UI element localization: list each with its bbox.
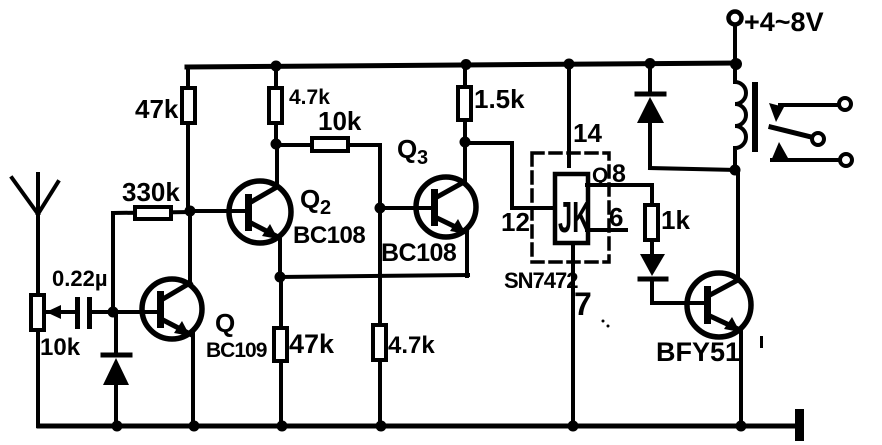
wire Q emitter to ground	[191, 334, 195, 426]
svg-text:47k: 47k	[289, 329, 335, 359]
node pin7/ground	[568, 421, 579, 432]
relay contact NO (top)	[769, 98, 851, 122]
capacitor C1 0.22u	[75, 297, 92, 329]
wire BFY51 emitter to ground	[739, 330, 743, 426]
diode D3 (flyback across relay)	[637, 64, 735, 171]
svg-text:BC108: BC108	[381, 239, 457, 267]
node top rail / 4.7k	[271, 61, 282, 72]
wire Q3 emitter down to bus	[465, 232, 469, 276]
transistor BFY51	[687, 273, 751, 337]
svg-text:+4~8V: +4~8V	[744, 7, 824, 37]
resistor 1.5k	[458, 65, 471, 143]
ground terminal bar	[795, 409, 804, 441]
svg-text:330k: 330k	[122, 177, 180, 207]
svg-text:4.7k: 4.7k	[388, 332, 435, 359]
antenna	[12, 174, 58, 296]
stray mark i	[760, 336, 763, 348]
wire Q collector up	[188, 211, 192, 283]
resistor R 10k (left input)	[31, 295, 76, 330]
wire junction up to 330k	[111, 213, 115, 312]
svg-text:7: 7	[574, 286, 592, 322]
node coil bottom	[730, 165, 741, 176]
svg-text:JK: JK	[558, 192, 591, 242]
node Q3 collector / pin12	[460, 137, 471, 148]
svg-text:10k: 10k	[318, 106, 362, 136]
svg-text:1.5k: 1.5k	[474, 84, 525, 114]
supply terminal	[729, 12, 742, 64]
transistor Q BC109	[142, 279, 202, 339]
node rail/supply	[730, 58, 742, 70]
wire emitter bus Q2-Q3	[280, 275, 468, 277]
svg-text:47k: 47k	[135, 94, 179, 124]
relay core bar	[752, 82, 758, 152]
node 4.7k/ground	[376, 421, 387, 432]
stray speck	[607, 325, 610, 328]
wire Q3 base	[380, 206, 432, 210]
svg-text:Q: Q	[397, 134, 417, 164]
wire top supply rail	[187, 63, 737, 67]
wire pin 8 Q output	[587, 185, 652, 206]
node cap/base junction	[108, 307, 119, 318]
svg-text:8: 8	[612, 160, 626, 188]
IC inner box JK	[555, 174, 588, 243]
arrow on input wire	[46, 305, 61, 319]
node rail/1.5k	[461, 59, 472, 70]
svg-text:6: 6	[609, 202, 623, 232]
resistor 4.7k (bottom)	[373, 325, 386, 426]
wire bottom ground rail	[39, 424, 797, 429]
node rail/pin14	[564, 59, 575, 70]
wire base junction to Q2	[190, 209, 246, 213]
node rail/flyback diode	[645, 58, 656, 69]
wire pin 14	[567, 64, 571, 166]
node base junction of Q2	[185, 206, 196, 217]
wire BFY51 collector up	[736, 170, 740, 280]
svg-text:Q: Q	[300, 184, 320, 214]
transistor Q2 BC108	[229, 181, 291, 243]
node Q3 base junction	[375, 203, 386, 214]
resistor 330k	[113, 207, 190, 219]
svg-text:10k: 10k	[40, 334, 81, 361]
transistor Q3 BC108	[416, 177, 476, 237]
node 47k/ground	[277, 421, 288, 432]
wire antenna/10k branch down to ground	[36, 296, 40, 426]
resistor 1k (base of BFY51)	[645, 205, 658, 254]
wire cap to transistor Q base	[92, 310, 158, 314]
wire pin 12	[465, 143, 556, 208]
wire Q2 collector up	[275, 144, 279, 187]
svg-text:Q: Q	[592, 164, 608, 187]
relay contact NC (bottom)	[771, 142, 852, 166]
svg-text:1k: 1k	[661, 205, 690, 235]
stray speck	[602, 320, 605, 323]
svg-text:14: 14	[573, 118, 602, 148]
resistor 47k (Q2 emitter)	[274, 277, 287, 426]
resistor 47k (top left)	[182, 67, 195, 211]
relay armature (common)	[771, 127, 824, 145]
svg-text:0.22µ: 0.22µ	[52, 266, 108, 291]
svg-text:3: 3	[417, 147, 428, 169]
node Q emitter/ground	[189, 421, 200, 432]
node BFY51 emitter/ground	[736, 421, 747, 432]
svg-text:Q: Q	[215, 308, 235, 338]
node Q2 collector / 10k	[271, 139, 282, 150]
resistor 4.7k (top, Q2 collector)	[269, 66, 282, 144]
svg-text:BC109: BC109	[206, 339, 267, 362]
wire pin 7 to ground	[571, 243, 575, 426]
wire 10k down to Q3 base and 4.7k	[378, 145, 382, 326]
svg-text:SN7472: SN7472	[504, 268, 578, 293]
svg-text:BFY51: BFY51	[656, 337, 740, 367]
IC SN7472 dashed box	[532, 153, 609, 262]
node Q2 emitter junction	[275, 272, 286, 283]
svg-text:12: 12	[501, 207, 530, 237]
wire Q2 emitter down	[278, 237, 282, 277]
resistor 10k (coupling)	[276, 138, 380, 151]
wire Q3 collector up	[463, 142, 467, 182]
diode D2 (base series)	[640, 254, 705, 303]
svg-text:BC108: BC108	[293, 222, 365, 249]
diode D1 (input clamp)	[103, 312, 130, 426]
wire pin 6 stub	[587, 228, 626, 232]
svg-text:2: 2	[320, 197, 331, 219]
relay coil	[735, 64, 746, 170]
node diode/ground	[112, 421, 123, 432]
